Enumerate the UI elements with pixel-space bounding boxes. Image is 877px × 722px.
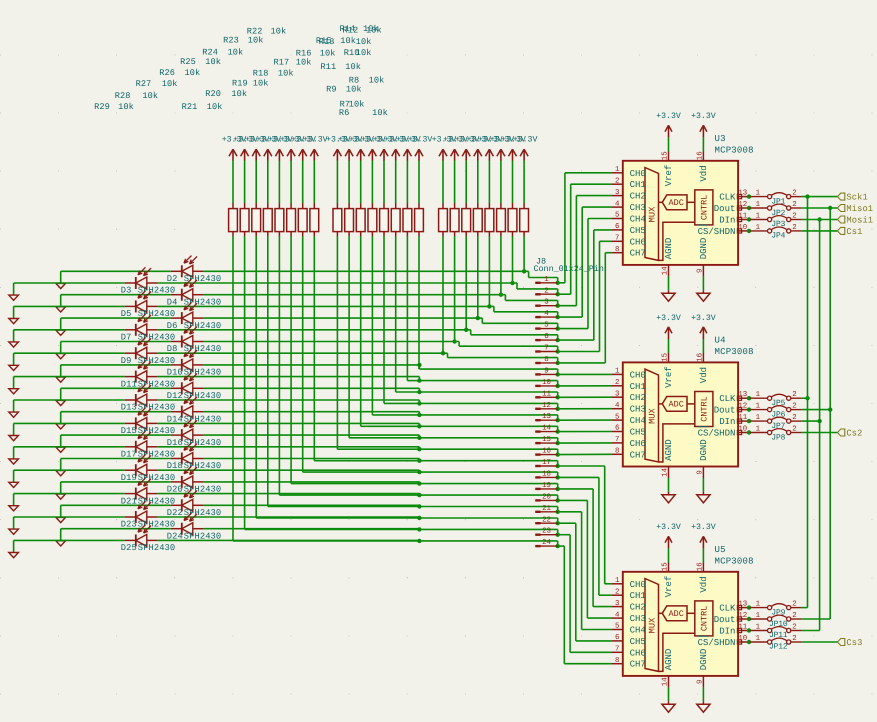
U3 internal MUX block: [645, 168, 659, 261]
svg-text:2: 2: [615, 379, 619, 387]
wire channel 11: D12 anode to J8 pin 11: [204, 388, 560, 399]
resistor R28 10k body: [240, 203, 249, 236]
hierarchical label Cs3: [837, 638, 862, 648]
power +3.3V symbol above resistor R9: [478, 136, 503, 161]
svg-text:JP12: JP12: [769, 643, 788, 652]
wire channel 18: D19 anode to J8 pin 18: [158, 470, 560, 480]
wire ground to photodiode D4 cathode: [61, 294, 171, 296]
J8 pin 15: [535, 436, 557, 444]
label D6 SFH2430: [167, 321, 221, 331]
svg-text:MCP3008: MCP3008: [715, 557, 754, 567]
resistor R29 reference label: [94, 102, 134, 112]
ground symbol for D2: [56, 271, 66, 288]
ground symbol for D19: [9, 470, 19, 487]
svg-text:10k: 10k: [345, 62, 361, 72]
U5 pin 1 CH0: [612, 577, 646, 590]
resistor R12 10k body: [450, 203, 459, 236]
label D13 SFH2430: [121, 403, 175, 413]
U4 pin 16 Vdd with +3.3V power symbol: [691, 314, 716, 363]
hierarchical label Cs1: [837, 227, 862, 237]
label D18 SFH2430: [167, 461, 221, 471]
wire J8 pin 12 to U4 CH3: [558, 408, 612, 410]
svg-text:CLK: CLK: [719, 394, 736, 404]
resistor R24 10k body: [287, 203, 296, 236]
op-amp U5 MCP3008 body: [623, 572, 738, 676]
jumper JP4: [747, 224, 802, 241]
wire +3.3V to resistor R24: [290, 161, 292, 204]
label D7 SFH2430: [121, 333, 175, 343]
wire ground to photodiode D2 cathode: [61, 270, 171, 272]
svg-text:Miso1: Miso1: [846, 204, 873, 214]
svg-text:Mosi1: Mosi1: [846, 215, 873, 225]
wire resistor R17 down to channel 12: [384, 236, 419, 403]
svg-text:R23: R23: [223, 35, 239, 45]
svg-text:CH5: CH5: [630, 226, 646, 236]
svg-text:10k: 10k: [162, 79, 178, 89]
svg-text:JP4: JP4: [771, 232, 785, 241]
wire J8 pin 6 to U3 CH5: [558, 230, 612, 340]
svg-text:10k: 10k: [369, 75, 385, 85]
resistor R9 reference label: [326, 85, 362, 95]
wire J8 pin 19 to U5 CH2: [558, 489, 612, 607]
U5 pin 3 CH2: [612, 600, 646, 613]
svg-text:1: 1: [756, 403, 761, 411]
wire ground to photodiode D19 cathode: [14, 469, 125, 471]
resistor R23 10k body: [298, 203, 307, 236]
svg-text:+3.3V: +3.3V: [691, 112, 716, 121]
U3 pin 3 CH2: [612, 189, 646, 202]
wire channel 1: D2 anode to J8 pin 1: [204, 269, 560, 285]
ground symbol for D18: [56, 459, 66, 476]
svg-text:CH7: CH7: [630, 660, 646, 670]
ground symbol for D7: [9, 330, 19, 347]
wire Miso bus vertical: [829, 208, 831, 619]
svg-text:AGND: AGND: [664, 649, 674, 671]
photodiode D22 SFH2430: [171, 490, 204, 512]
wire +3.3V to resistor R15: [406, 161, 408, 204]
wire channel 21: D22 anode to J8 pin 21: [204, 504, 560, 514]
svg-text:5: 5: [544, 322, 548, 330]
svg-text:+3.3V: +3.3V: [513, 136, 538, 145]
U5 port name labels: [664, 576, 709, 671]
svg-text:10: 10: [738, 426, 747, 434]
U5 pin 16 Vdd with +3.3V power symbol: [691, 523, 716, 572]
svg-text:10k: 10k: [248, 35, 264, 45]
J8 pin 9: [535, 367, 557, 375]
svg-text:Cs2: Cs2: [846, 428, 862, 438]
op-amp U4 MCP3008 body: [623, 362, 738, 466]
svg-text:U4: U4: [715, 336, 726, 346]
svg-text:6: 6: [544, 333, 548, 341]
svg-text:Vdd: Vdd: [699, 367, 709, 383]
svg-text:MCP3008: MCP3008: [715, 146, 754, 156]
svg-text:D25: D25: [121, 543, 137, 553]
svg-text:2: 2: [792, 190, 796, 198]
label D3 SFH2430: [121, 286, 175, 296]
svg-text:R27: R27: [136, 79, 152, 89]
resistor R27 10k body: [252, 203, 261, 236]
U3 pin 9 DGND with ground symbol: [697, 265, 711, 301]
svg-text:CS/SHDN: CS/SHDN: [698, 638, 736, 648]
wire +3.3V to resistor R16: [395, 161, 397, 204]
wire +3.3V to resistor R21: [336, 161, 338, 204]
U4 pin 14 AGND with ground symbol: [662, 467, 676, 503]
U4 internal CNTRL block: [659, 392, 713, 463]
svg-text:Sck1: Sck1: [846, 193, 867, 203]
wire channel 14: D15 anode to J8 pin 14: [158, 423, 560, 433]
svg-text:ADC: ADC: [669, 400, 684, 410]
resistor R27 reference label: [136, 79, 178, 89]
U3 internal ADC block: [659, 195, 695, 210]
U4 pin 5 CH4: [612, 413, 646, 426]
resistor R20 reference label: [205, 89, 247, 99]
photodiode D6 SFH2430: [171, 302, 204, 324]
wire channel 22: D23 anode to J8 pin 22: [158, 516, 560, 526]
resistor R6 reference label: [339, 108, 388, 118]
svg-text:8: 8: [615, 657, 619, 665]
wire J8 pin 11 to U4 CH2: [558, 396, 612, 398]
ground symbol for D15: [9, 423, 19, 440]
U3 internal CNTRL block: [659, 190, 713, 261]
U5 pin 13 CLK: [719, 601, 749, 614]
svg-text:R19: R19: [232, 78, 248, 88]
U5 pin 11 DIn: [719, 624, 749, 637]
J8 pin 22: [535, 516, 557, 524]
svg-text:R29: R29: [94, 102, 110, 112]
svg-text:CH2: CH2: [630, 393, 646, 403]
wire ground to photodiode D21 cathode: [14, 493, 125, 495]
svg-text:7: 7: [615, 436, 619, 444]
wire J8 pin 16 to U4 CH7: [558, 453, 612, 455]
svg-text:10k: 10k: [340, 36, 356, 46]
wire J8 pin 14 to U4 CH5: [558, 431, 612, 433]
wire JP7 to Mosi bus: [802, 419, 822, 423]
photodiode D12 SFH2430: [171, 373, 204, 395]
resistor R10 reference label: [344, 48, 372, 58]
wire channel 2: D3 anode to J8 pin 2: [158, 281, 560, 297]
J8 pin 20: [535, 493, 557, 501]
photodiode D17 SFH2430: [125, 431, 158, 453]
photodiode D14 SFH2430: [171, 396, 204, 418]
U3 pin 12 Dout: [714, 201, 749, 214]
U3 pin 4 CH3: [612, 200, 646, 213]
power +3.3V symbol above resistor R10: [467, 136, 492, 161]
resistor R25 10k body: [275, 203, 284, 236]
J8 pin 16: [535, 448, 557, 456]
op-amp U3 MCP3008 body: [623, 161, 738, 265]
photodiode D20 SFH2430: [171, 466, 204, 488]
photodiode D15 SFH2430: [125, 408, 158, 430]
wire resistor R20 down to channel 15: [349, 236, 419, 438]
jumper JP1: [747, 190, 802, 207]
U3 pin 14 AGND with ground symbol: [662, 265, 676, 301]
label D16 SFH2430: [167, 438, 221, 448]
resistor R12 reference label: [343, 25, 382, 35]
svg-text:CH2: CH2: [630, 603, 646, 613]
wire resistor R15 down to channel 10: [407, 236, 419, 380]
U5 internal MUX block: [645, 579, 659, 672]
svg-text:+3.3V: +3.3V: [408, 136, 433, 145]
svg-text:12: 12: [542, 402, 551, 410]
wire channel 15: D16 anode to J8 pin 15: [204, 435, 560, 445]
photodiode D19 SFH2430: [125, 455, 158, 477]
svg-text:15: 15: [662, 353, 670, 362]
wire resistor R23 down to channel 18: [303, 236, 420, 472]
svg-text:R9: R9: [326, 85, 337, 95]
svg-text:2: 2: [792, 201, 796, 209]
U4 pin 7 CH6: [612, 436, 646, 449]
photodiode D10 SFH2430: [171, 349, 204, 371]
svg-text:CH0: CH0: [630, 169, 646, 179]
wire channel 23: D24 anode to J8 pin 23: [204, 527, 560, 537]
svg-text:10k: 10k: [185, 68, 201, 78]
U5 pin 5 CH4: [612, 623, 646, 636]
svg-text:13: 13: [738, 601, 747, 609]
resistor R21 10k body: [333, 203, 342, 236]
svg-text:2: 2: [615, 589, 619, 597]
svg-text:1: 1: [615, 577, 620, 585]
svg-text:10k: 10k: [118, 102, 134, 112]
U3 pin 8 CH7: [612, 246, 646, 259]
svg-text:Vref: Vref: [664, 576, 674, 598]
wire J8 pin 21 to U5 CH4: [558, 512, 612, 630]
J8 pin 11: [535, 390, 557, 398]
svg-text:R28: R28: [115, 91, 131, 101]
power +3.3V symbol above resistor R8: [490, 136, 515, 161]
wire ground to photodiode D9 cathode: [14, 352, 125, 354]
wire resistor R19 down to channel 14: [361, 236, 420, 426]
wire ground to photodiode D7 cathode: [14, 329, 125, 331]
U5 pin 15 Vref with +3.3V power symbol: [656, 523, 681, 572]
svg-text:MCP3008: MCP3008: [715, 347, 754, 357]
power +3.3V symbol above resistor R25: [268, 136, 293, 161]
svg-text:23: 23: [542, 528, 551, 536]
svg-text:14: 14: [662, 677, 670, 686]
resistor R13 reference label: [319, 37, 372, 47]
hierarchical label Cs2: [837, 428, 862, 438]
label D14 SFH2430: [167, 414, 221, 424]
wire resistor R29 down to channel 24: [233, 236, 419, 541]
svg-text:CH5: CH5: [630, 428, 646, 438]
svg-text:10k: 10k: [320, 48, 336, 58]
svg-text:16: 16: [697, 353, 705, 362]
wire Mosi bus vertical: [819, 220, 821, 631]
wire J8 pin 10 to U4 CH1: [558, 385, 612, 387]
svg-text:AGND: AGND: [664, 238, 674, 260]
svg-text:CH3: CH3: [630, 614, 646, 624]
photodiode D16 SFH2430: [171, 419, 204, 441]
svg-text:CH4: CH4: [630, 416, 646, 426]
U3 pin 15 Vref with +3.3V power symbol: [656, 112, 681, 161]
J8 pin 6: [535, 333, 557, 341]
wire J8 pin 1 to U3 CH0: [558, 173, 612, 283]
label D20 SFH2430: [167, 485, 221, 495]
wire +3.3V to resistor R27: [255, 161, 257, 204]
svg-text:4: 4: [615, 402, 620, 410]
svg-text:7: 7: [615, 646, 619, 654]
wire J8 pin 2 to U3 CH1: [558, 184, 612, 294]
svg-text:4: 4: [615, 200, 620, 208]
power +3.3V symbol above resistor R18: [361, 136, 386, 161]
svg-text:5: 5: [615, 623, 619, 631]
svg-text:AGND: AGND: [664, 439, 674, 461]
wire channel 16: D17 anode to J8 pin 16: [158, 447, 560, 457]
wire J8 pin 17 to U5 CH0: [558, 466, 612, 584]
U3 pin 1 CH0: [612, 166, 646, 179]
svg-text:9: 9: [544, 367, 548, 375]
ground symbol for D20: [56, 482, 66, 499]
wire J8 pin 4 to U3 CH3: [558, 207, 612, 317]
wire JP9 to Sck bus: [802, 607, 808, 609]
svg-text:Cs1: Cs1: [846, 227, 862, 237]
label D25 SFH2430: [121, 543, 175, 553]
photodiode D9 SFH2430: [125, 338, 158, 360]
resistor R24 reference label: [202, 47, 243, 57]
U5 internal CNTRL block: [659, 601, 713, 672]
svg-text:6: 6: [615, 634, 619, 642]
svg-text:CH1: CH1: [630, 382, 646, 392]
J8 pin 4: [535, 310, 557, 318]
svg-text:2: 2: [615, 178, 619, 186]
hierarchical label Miso1: [837, 204, 873, 214]
ground symbol for D22: [56, 505, 66, 522]
wire J8 pin 13 to U4 CH4: [558, 419, 612, 421]
wire J8 pin 18 to U5 CH1: [558, 477, 612, 595]
svg-text:1: 1: [756, 601, 761, 609]
svg-text:15: 15: [662, 151, 670, 160]
svg-text:CH0: CH0: [630, 580, 646, 590]
U3 pin 2 CH1: [612, 178, 646, 191]
svg-text:Vref: Vref: [664, 366, 674, 388]
svg-text:R18: R18: [253, 68, 269, 78]
wire resistor R14 down to channel 9: [418, 236, 420, 369]
wire ground to photodiode D15 cathode: [14, 422, 125, 424]
svg-text:CH2: CH2: [630, 192, 646, 202]
power +3.3V symbol above resistor R27: [245, 136, 270, 161]
jumper JP9: [747, 601, 802, 618]
svg-text:CH3: CH3: [630, 203, 646, 213]
svg-text:24: 24: [542, 539, 551, 547]
photodiode D5 SFH2430: [125, 291, 158, 313]
resistor R17 reference label: [274, 58, 312, 68]
label D15 SFH2430: [121, 426, 175, 436]
wire J8 pin 22 to U5 CH5: [558, 523, 612, 641]
svg-text:CH1: CH1: [630, 180, 646, 190]
svg-text:8: 8: [615, 246, 619, 254]
svg-text:2: 2: [792, 624, 796, 632]
U5 pin 10 CS/SHDN: [698, 635, 749, 648]
ground symbol for D11: [9, 377, 19, 394]
svg-text:6: 6: [615, 223, 619, 231]
svg-text:CH6: CH6: [630, 439, 646, 449]
wire channel 9: D10 anode to J8 pin 9: [204, 363, 560, 377]
J8 pin 17: [535, 459, 557, 467]
photodiode D23 SFH2430: [125, 501, 158, 523]
wire resistor R8 down to channel 3: [500, 236, 502, 295]
J8 pin 23: [535, 528, 557, 536]
power +3.3V symbol above resistor R14: [408, 136, 433, 161]
svg-text:12: 12: [738, 403, 747, 411]
svg-text:16: 16: [697, 151, 705, 160]
J8 pin 5: [535, 322, 557, 330]
U4 internal ADC block: [659, 397, 695, 412]
wire channel 5: D6 anode to J8 pin 5: [204, 316, 560, 331]
svg-text:Dout: Dout: [714, 406, 736, 416]
U3 pin 5 CH4: [612, 212, 646, 225]
svg-text:1: 1: [544, 276, 549, 284]
power +3.3V symbol above resistor R16: [384, 136, 409, 161]
U5 pin 12 Dout: [714, 612, 749, 625]
wire JP4 to Cs1 label: [802, 230, 838, 232]
wire ground to photodiode D11 cathode: [14, 376, 125, 378]
wire ground to photodiode D20 cathode: [61, 481, 171, 483]
svg-text:1: 1: [756, 635, 761, 643]
svg-text:+3.3V: +3.3V: [691, 523, 716, 532]
U4 pin 15 Vref with +3.3V power symbol: [656, 314, 681, 363]
label D4 SFH2430: [167, 297, 221, 307]
jumper JP12: [747, 635, 802, 652]
wire resistor R7 down to channel 2: [512, 236, 514, 283]
svg-text:10k: 10k: [271, 27, 287, 37]
svg-text:11: 11: [738, 414, 747, 422]
svg-text:10k: 10k: [231, 89, 247, 99]
label D10 SFH2430: [167, 368, 221, 378]
resistor R7 reference label: [340, 99, 365, 109]
svg-text:Vdd: Vdd: [699, 576, 709, 592]
svg-text:1: 1: [756, 190, 761, 198]
svg-text:20: 20: [542, 493, 551, 501]
wire JP10 to Miso bus: [802, 618, 831, 620]
J8 pin 19: [535, 482, 557, 490]
jumper JP8: [747, 426, 802, 443]
wire resistor R25 down to channel 20: [279, 236, 419, 495]
U3 pin 13 CLK: [719, 190, 749, 203]
wire J8 pin 7 to U3 CH6: [558, 241, 612, 351]
ground symbol for D12: [56, 388, 66, 405]
resistor R9 10k body: [485, 203, 494, 236]
resistor R13 10k body: [439, 203, 448, 236]
svg-text:12: 12: [738, 201, 747, 209]
power +3.3V symbol above resistor R20: [338, 136, 363, 161]
J8 pin 2: [535, 287, 557, 295]
wire +3.3V to resistor R29: [232, 161, 234, 204]
wire channel 20: D21 anode to J8 pin 20: [158, 493, 560, 503]
U5 pin 9 DGND with ground symbol: [697, 676, 711, 712]
svg-text:Cs3: Cs3: [846, 638, 862, 648]
wire +3.3V to resistor R22: [313, 161, 315, 204]
svg-text:15: 15: [542, 436, 551, 444]
resistor R22 10k body: [310, 203, 319, 236]
svg-text:10: 10: [542, 379, 551, 387]
svg-text:MUX: MUX: [648, 617, 658, 633]
label D21 SFH2430: [121, 496, 175, 506]
resistor R21 reference label: [182, 102, 223, 112]
wire channel 13: D14 anode to J8 pin 13: [204, 412, 560, 423]
resistor R18 reference label: [253, 68, 294, 78]
photodiode D7 SFH2430: [125, 314, 158, 336]
wire resistor R10 down to channel 5: [477, 236, 479, 318]
wire ground to photodiode D6 cathode: [61, 317, 171, 319]
photodiode D3 SFH2430: [125, 267, 158, 289]
resistor R25 reference label: [180, 57, 221, 67]
wire resistor R11 down to channel 6: [465, 236, 467, 330]
U4 pin 1 CH0: [612, 368, 646, 381]
U4 pin 13 CLK: [719, 391, 749, 404]
wire ground to photodiode D12 cathode: [61, 387, 171, 389]
svg-text:1: 1: [756, 391, 761, 399]
power +3.3V symbol above resistor R24: [280, 136, 305, 161]
wire ground to photodiode D24 cathode: [61, 528, 171, 530]
